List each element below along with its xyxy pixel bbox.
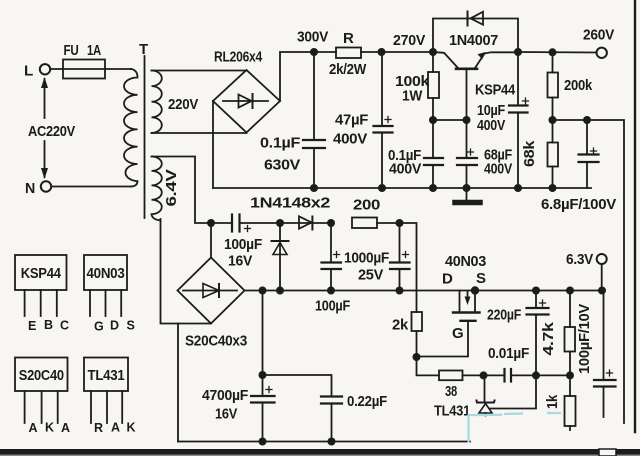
capacitor 10uF 400V xyxy=(509,52,529,188)
diode 1N4148 first xyxy=(272,223,289,291)
node bottom 331 xyxy=(328,438,336,446)
node rail 602 xyxy=(598,287,606,295)
node 47uF top xyxy=(378,48,386,56)
capacitor 68uF 400V xyxy=(457,120,477,188)
bridge rectifier RL206x4 xyxy=(213,70,280,133)
svg-text:40N03: 40N03 xyxy=(445,253,486,270)
label N xyxy=(25,180,35,197)
resistor 4.7k xyxy=(565,291,576,376)
node rail 331 xyxy=(327,287,335,295)
label 68uF 400V xyxy=(484,147,512,178)
label 68k xyxy=(521,140,538,167)
svg-text:270V: 270V xyxy=(393,32,425,49)
resistor 200k xyxy=(548,52,559,120)
diode 1N4007 bypass xyxy=(433,12,518,53)
label S xyxy=(476,270,486,287)
label 200 xyxy=(353,197,380,214)
label KSP44 xyxy=(475,82,516,99)
label 4700uF 16V xyxy=(202,387,248,423)
label 47uF 400V xyxy=(333,112,368,148)
label FU 1A xyxy=(64,42,102,59)
svg-text:200: 200 xyxy=(353,197,380,214)
svg-text:S: S xyxy=(476,270,486,287)
wire top rail 300V to R xyxy=(314,51,336,53)
node diode junction xyxy=(276,219,284,227)
svg-text:FU: FU xyxy=(64,42,79,59)
svg-text:38: 38 xyxy=(445,383,457,400)
AC220V arrow xyxy=(41,77,48,179)
pinout box 40N03 xyxy=(84,255,127,316)
node gate junction xyxy=(413,353,421,361)
label G xyxy=(452,325,463,342)
capacitor 0.1uF 630V xyxy=(303,52,325,188)
resistor R 2k/2W xyxy=(336,48,361,59)
svg-text:4.7k: 4.7k xyxy=(540,321,557,355)
label 0.01uF xyxy=(488,345,529,362)
svg-text:220µF: 220µF xyxy=(487,307,521,324)
svg-text:S20C40: S20C40 xyxy=(19,367,64,384)
node 270V xyxy=(429,48,437,56)
svg-text:K: K xyxy=(127,421,136,435)
rail 6V wire xyxy=(245,290,604,292)
label 4.7k xyxy=(540,321,557,355)
label 100uF lower xyxy=(315,298,350,315)
diode inside S20C40x3 xyxy=(183,284,237,298)
ground xyxy=(455,188,480,203)
node 4700uF mid xyxy=(259,371,267,379)
svg-text:G: G xyxy=(452,325,463,342)
svg-text:A: A xyxy=(61,421,70,435)
scan bottom black bar xyxy=(0,449,640,456)
wire 220V secondary top to bridge xyxy=(152,70,247,72)
svg-text:N: N xyxy=(25,180,35,197)
label 40N03 xyxy=(445,253,486,270)
wire 6.4V top to node xyxy=(152,157,212,224)
label 260V xyxy=(583,27,614,44)
label S20C40x3 xyxy=(185,333,247,350)
label 0.1uF 400V xyxy=(388,147,421,178)
node 47uF bottom xyxy=(378,184,386,192)
svg-text:L: L xyxy=(24,63,33,80)
svg-text:B: B xyxy=(44,318,53,332)
wire 200k to right branch xyxy=(553,120,625,423)
wire 200 to corner xyxy=(377,223,417,312)
svg-text:1W: 1W xyxy=(402,88,423,105)
node 4.7k bottom xyxy=(566,371,574,379)
node 100uF16V left xyxy=(207,219,215,227)
capacitor 1000uF left xyxy=(322,223,342,291)
wire 6.4V bottom to S20C40 bridge xyxy=(161,219,212,324)
svg-text:6.3V: 6.3V xyxy=(566,251,593,268)
node 4.7k top xyxy=(566,287,574,295)
svg-text:400V: 400V xyxy=(333,131,367,148)
node TL431 cathode xyxy=(480,371,488,379)
TL431 xyxy=(477,375,495,415)
svg-text:25V: 25V xyxy=(358,267,383,284)
label 100uF/10V xyxy=(576,304,593,374)
svg-text:KSP44: KSP44 xyxy=(475,82,516,99)
wire divider xyxy=(536,374,570,376)
node 1000uF right top xyxy=(396,219,404,227)
node 68k top xyxy=(549,116,557,124)
capacitor 0.1uF 400V xyxy=(424,120,443,188)
label 270V xyxy=(393,32,425,49)
resistor 100k 1W xyxy=(428,52,439,120)
node mosfet source xyxy=(471,286,479,294)
capacitor 47uF 400V xyxy=(374,52,393,188)
resistor 38 xyxy=(439,371,463,381)
svg-text:AC220V: AC220V xyxy=(28,123,75,140)
wire R to 270V node xyxy=(361,51,433,53)
label D xyxy=(442,271,453,288)
svg-text:1N4148x2: 1N4148x2 xyxy=(250,195,330,212)
pinout box S20C40 xyxy=(15,358,68,424)
label 38 xyxy=(445,383,457,400)
transformer 6.4V secondary winding xyxy=(152,157,162,221)
node rail 280 xyxy=(276,287,284,295)
svg-text:S20C40x3: S20C40x3 xyxy=(185,333,247,350)
node rail 262 xyxy=(259,287,267,295)
svg-text:A: A xyxy=(111,421,120,435)
capacitor 1000uF right xyxy=(390,223,410,291)
svg-text:4700µF: 4700µF xyxy=(202,387,248,404)
pinout box KSP44 xyxy=(15,255,67,316)
transformer T primary winding xyxy=(124,69,137,187)
label 1N4007 xyxy=(449,32,498,49)
label pinout S20C40 xyxy=(19,367,70,435)
node base left xyxy=(429,116,437,124)
node 6.8uF top xyxy=(583,116,591,124)
svg-text:100µF/10V: 100µF/10V xyxy=(576,304,593,374)
svg-text:100µF: 100µF xyxy=(224,236,262,253)
node 0.1uF 630V bottom xyxy=(310,184,318,192)
label 6.8uF/100V xyxy=(541,196,616,213)
svg-text:0.1µF: 0.1µF xyxy=(260,135,300,152)
svg-text:C: C xyxy=(60,319,69,333)
capacitor 0.22uF xyxy=(321,397,342,442)
label 6.3V xyxy=(566,251,593,268)
svg-text:D: D xyxy=(442,271,453,288)
capacitor 100uF/10V xyxy=(594,291,616,418)
capacitor 6.8uF 100V xyxy=(579,120,599,188)
node emitter xyxy=(514,48,522,56)
wire bridge minus to ground rail xyxy=(212,101,214,188)
svg-text:TL431: TL431 xyxy=(434,403,470,420)
wire TL431 anode highlighted xyxy=(469,413,561,442)
resistor 200 xyxy=(352,218,377,229)
svg-text:2k: 2k xyxy=(392,317,409,334)
resistor 68k xyxy=(548,120,559,188)
svg-text:TL431: TL431 xyxy=(88,367,125,384)
svg-text:S: S xyxy=(127,319,135,333)
node 10uF bottom xyxy=(514,184,522,192)
wire base node xyxy=(433,119,467,121)
svg-text:400V: 400V xyxy=(389,161,421,178)
node 68uF bottom xyxy=(463,184,471,192)
label 300V xyxy=(297,29,328,46)
fuse FU 1A xyxy=(51,60,132,79)
terminal 6.3V xyxy=(597,254,607,264)
svg-text:G: G xyxy=(94,320,103,334)
svg-text:200k: 200k xyxy=(564,77,593,94)
label 1k xyxy=(544,394,561,409)
node 200k top xyxy=(549,48,557,56)
svg-text:630V: 630V xyxy=(264,157,300,174)
node divider mid xyxy=(532,371,540,379)
transformer core xyxy=(144,56,146,218)
svg-text:K: K xyxy=(45,421,54,435)
label 1N4148x2 xyxy=(250,195,330,212)
svg-text:6.8µF/100V: 6.8µF/100V xyxy=(541,196,616,213)
diode 1N4148 second xyxy=(280,216,331,229)
label T xyxy=(139,41,148,58)
label RL206x4 xyxy=(214,49,263,66)
wire 38 to node xyxy=(463,374,484,376)
svg-text:68k: 68k xyxy=(521,140,538,167)
svg-text:A: A xyxy=(29,421,38,435)
label 1000uF 25V xyxy=(344,250,389,284)
capacitor 0.01uF xyxy=(484,369,537,382)
transformer 220V secondary winding xyxy=(152,71,162,133)
svg-text:220V: 220V xyxy=(168,96,198,113)
svg-text:400V: 400V xyxy=(484,161,512,178)
capacitor 100uF 16V xyxy=(211,215,280,232)
node 220uF top xyxy=(532,287,540,295)
label 220V xyxy=(168,96,198,113)
label 200k xyxy=(564,77,593,94)
bottom rail wire xyxy=(178,441,470,443)
wire TL431 ref to divider xyxy=(490,375,536,408)
label 10uF 400V xyxy=(477,102,505,134)
svg-text:16V: 16V xyxy=(228,253,252,270)
svg-text:260V: 260V xyxy=(583,27,614,44)
transistor KSP44 xyxy=(433,52,518,120)
label 0.1uF 630V xyxy=(260,135,300,174)
terminal L xyxy=(40,64,50,74)
svg-text:KSP44: KSP44 xyxy=(21,265,62,282)
svg-text:R: R xyxy=(94,421,103,435)
pinout box TL431 xyxy=(84,358,128,424)
mosfet 40N03 xyxy=(417,291,480,357)
svg-text:0.22µF: 0.22µF xyxy=(347,393,387,410)
svg-text:D: D xyxy=(110,319,119,333)
wire branch to bottom rail xyxy=(177,324,179,442)
label 0.22uF xyxy=(347,393,387,410)
label 100uF 16V xyxy=(224,236,262,270)
bridge rectifier S20C40x3 xyxy=(178,258,245,324)
svg-text:0.01µF: 0.01µF xyxy=(488,345,529,362)
node 0.1uF 400V bottom xyxy=(429,184,437,192)
wire emitter to 260V xyxy=(518,51,597,54)
capacitor 4700uF 16V xyxy=(251,387,275,442)
capacitor 220uF xyxy=(527,291,549,376)
scan frame right edge xyxy=(634,0,636,432)
node bottom 262 xyxy=(259,438,267,446)
label 6.4V xyxy=(163,169,180,206)
terminal N xyxy=(41,181,51,191)
label AC220V xyxy=(28,123,75,140)
label 220uF xyxy=(487,307,521,324)
terminal 260V xyxy=(597,48,607,58)
svg-text:16V: 16V xyxy=(215,406,237,423)
label pinout KSP44 xyxy=(21,265,69,333)
svg-text:1000µF: 1000µF xyxy=(344,250,389,267)
svg-text:RL206x4: RL206x4 xyxy=(214,49,263,66)
wire node to bridge top xyxy=(210,223,212,258)
diode inside RL206x4 xyxy=(223,94,268,108)
label 2k/2W xyxy=(329,61,367,78)
wire mid to 0.22uF xyxy=(263,375,332,397)
resistor 1k xyxy=(565,375,576,430)
wire N to transformer xyxy=(52,186,132,188)
ground rail wire xyxy=(213,187,591,189)
svg-text:6.4V: 6.4V xyxy=(163,169,180,206)
node rail 399 xyxy=(396,287,404,295)
svg-text:E: E xyxy=(28,319,36,333)
svg-text:1A: 1A xyxy=(87,42,101,59)
node 300V xyxy=(310,48,318,56)
label pinout TL431 xyxy=(88,367,136,435)
label L xyxy=(24,63,33,80)
svg-text:47µF: 47µF xyxy=(335,112,368,129)
svg-text:2k/2W: 2k/2W xyxy=(329,61,367,78)
svg-text:R: R xyxy=(343,30,354,47)
label pinout 40N03 xyxy=(87,265,135,334)
svg-text:300V: 300V xyxy=(297,29,328,46)
node 200 left xyxy=(327,219,335,227)
label TL431 xyxy=(434,403,470,420)
label R xyxy=(343,30,354,47)
scan small box bottom right xyxy=(599,449,616,456)
wire gate node to 38 xyxy=(417,357,440,375)
node 68k bottom xyxy=(549,184,557,192)
label 2k xyxy=(392,317,409,334)
svg-text:1N4007: 1N4007 xyxy=(449,32,498,49)
svg-text:1k: 1k xyxy=(544,394,561,409)
svg-text:100µF: 100µF xyxy=(315,298,350,315)
wire 220V secondary bottom to bridge xyxy=(152,132,247,134)
resistor 2k xyxy=(412,312,423,357)
svg-text:T: T xyxy=(139,41,148,58)
svg-text:40N03: 40N03 xyxy=(87,265,125,282)
svg-text:400V: 400V xyxy=(477,117,505,134)
wire bridge plus to 300V node xyxy=(280,52,314,101)
node base right xyxy=(463,116,471,124)
wire 6.3V to rail xyxy=(601,264,603,291)
label 100k 1W xyxy=(395,73,430,105)
wire 4700uF branch xyxy=(262,291,264,397)
